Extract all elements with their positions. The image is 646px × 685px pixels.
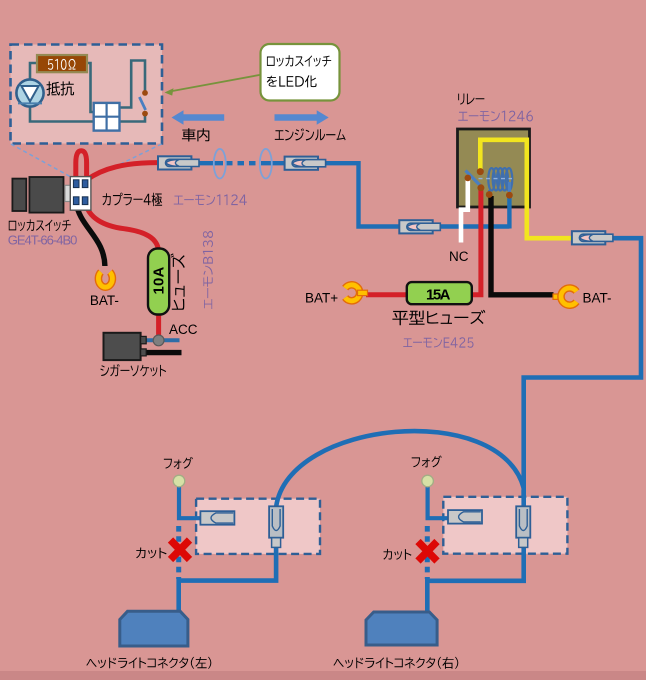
big arc (left fog to right feed) — [276, 431, 524, 507]
terminal BAT+ — [345, 285, 367, 301]
wire red (coupler loop between top pins) — [76, 151, 87, 182]
zoom indicator dashed lines — [11, 144, 162, 178]
coupler tab — [65, 185, 70, 201]
wire red (BAT+ to 15A fuse) — [366, 292, 408, 297]
svg-text:10A: 10A — [151, 266, 168, 294]
wire blue (engine room to relay, upper run) — [317, 163, 400, 226]
relay pin dot (common, red) — [477, 184, 484, 191]
label ACC — [169, 322, 198, 337]
wire yellow (relay contact to engine connector) — [480, 140, 573, 238]
label フォグ right — [412, 456, 442, 468]
label ヘッドライトコネクタ（右） — [333, 657, 458, 669]
relay pin dot (coil black) — [486, 191, 493, 198]
wire black (cigar socket ground) — [144, 350, 182, 355]
LED D1 (indicator lamp) — [16, 79, 43, 106]
switch contact lower — [142, 111, 148, 117]
relay coil — [488, 168, 512, 195]
relay pin dot (yellow contact) — [477, 168, 484, 175]
wire blue dotted (cut section right) — [425, 526, 430, 579]
label エーモン1124 — [174, 194, 247, 205]
fog right female connector — [448, 510, 482, 523]
terminal BAT- right — [553, 288, 577, 305]
fog lamp terminal left — [173, 475, 185, 487]
svg-text:BAT-: BAT- — [583, 290, 612, 305]
relay armature — [466, 171, 483, 188]
svg-text:15A: 15A — [426, 287, 451, 304]
fuse 15A エーモンE425 — [407, 282, 472, 304]
wire red (10A fuse to ACC) — [156, 312, 161, 339]
label シガーソケット — [100, 364, 166, 376]
bullet connector C1 (cabin, red side) — [158, 156, 199, 169]
wire blue (fog left: lamp to connector) — [179, 486, 201, 518]
wire black (coupler to BAT- terminal) — [76, 202, 105, 266]
label フォグ left — [164, 457, 193, 469]
wire red (coupler to 10A fuse) — [86, 202, 159, 251]
wire blue (fog left: male connector to headlight connector) — [179, 546, 276, 613]
relay label リレー — [458, 94, 484, 105]
label ヒューズ (vertical) — [171, 253, 185, 309]
fuse 10A エーモンB138 — [148, 249, 169, 315]
label 抵抗 (resistor) — [46, 81, 74, 95]
wire blue (feed through right box to male connector) — [521, 490, 526, 540]
wire blue (cigar socket ACC feed) — [144, 338, 180, 342]
wire blue (cabin side firewall pass-through) — [198, 161, 286, 165]
label ヘッドライトコネクタ（左） — [86, 657, 211, 669]
bullet connector C4 (yellow to lamp run) — [572, 231, 613, 244]
firewall grommet ring 1 — [214, 149, 226, 179]
wire white NC — [461, 179, 468, 243]
svg-text:GE4T-66-4B0: GE4T-66-4B0 — [8, 233, 78, 248]
wire red (relay to 15A fuse) — [471, 190, 481, 295]
wire blue (connector to relay coil) — [431, 194, 509, 229]
relay label エーモン1246 — [458, 110, 533, 121]
resistor R 510ohm value box — [37, 55, 87, 72]
bullet connector C2 (engine room side) — [285, 157, 326, 170]
label 平型ヒューズ — [392, 310, 485, 326]
cut mark X left — [171, 540, 190, 560]
arrow エンジンルーム (engine room side) — [275, 110, 346, 140]
wire blue (fog right: lamp to connector) — [428, 486, 449, 518]
relay pin dot (coil blue) — [506, 192, 513, 199]
ACC tap junction — [153, 335, 164, 346]
inset detail box (rocker switch internal circuit) — [11, 45, 163, 144]
relay armature link (dashed) — [471, 178, 512, 180]
label カット right — [383, 549, 411, 560]
wire (inset: right branch to upper contact) — [120, 61, 145, 108]
arrow 車内 (cabin side) — [172, 110, 225, 141]
label エーモンE425 — [403, 337, 473, 348]
label BAT- right — [583, 290, 612, 305]
switch contact upper — [142, 90, 148, 96]
fog lamp terminal right — [422, 475, 434, 487]
label エーモンB138 (vertical) — [203, 231, 213, 309]
label カプラー4極 — [103, 193, 163, 207]
svg-text:BAT-: BAT- — [90, 293, 119, 308]
rocker switch body — [12, 177, 63, 213]
cut mark X right — [418, 542, 437, 562]
switch body (2x2 grid) — [94, 103, 120, 131]
svg-text:BAT+: BAT+ — [305, 290, 338, 305]
relay pin dot (NC contact) — [465, 175, 472, 182]
svg-text:NC: NC — [449, 249, 469, 264]
wire red (coupler to cabin connector) — [87, 163, 159, 180]
fog left female connector — [200, 511, 234, 525]
wire (inset: resistor to switch) — [87, 63, 94, 112]
wire (inset: bottom loop to lower contact) — [30, 106, 145, 122]
bullet connector C3 (relay lamp feed) — [399, 220, 440, 233]
label カット left — [136, 548, 166, 559]
label BAT+ — [305, 290, 338, 305]
label GE4T-66-4B0 — [8, 233, 78, 248]
fog left dashed box — [196, 499, 320, 554]
coupler 4-pin body エーモン1124 — [70, 177, 91, 211]
wire blue (to right lamp circuit, down right edge) — [524, 238, 641, 508]
callout box ロッカスイッチをLED化 — [261, 44, 340, 101]
cigar socket body — [104, 333, 147, 360]
fog right dashed box — [443, 497, 567, 554]
label ロッカスイッチ — [9, 219, 71, 231]
headlight connector right — [366, 612, 437, 645]
wire blue (fog right: male connector to headlight connector) — [427, 540, 523, 613]
terminal BAT- (switch ground) — [98, 272, 112, 287]
label BAT- left — [90, 293, 119, 308]
wire blue dotted (cut section left) — [176, 526, 181, 579]
wire (inset: LED top to resistor) — [30, 63, 37, 81]
svg-text:ACC: ACC — [169, 322, 198, 337]
fog left male connector — [269, 506, 283, 547]
switch lever — [139, 97, 145, 110]
relay body エーモン1246 — [458, 129, 530, 207]
callout leader arrow — [165, 75, 263, 96]
label NC — [449, 249, 469, 264]
firewall grommet ring 2 — [260, 149, 272, 179]
headlight connector left — [120, 611, 188, 646]
wire black (relay to BAT- right) — [491, 196, 554, 295]
fog right male connector — [516, 506, 530, 547]
